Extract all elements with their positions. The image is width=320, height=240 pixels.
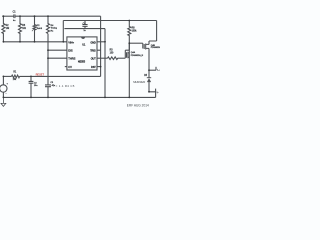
wire RST stub <box>97 66 101 68</box>
wire GND pin stub <box>97 41 105 43</box>
connector pin1 tick <box>155 67 157 70</box>
svg-text:GND: GND <box>91 42 96 45</box>
svg-text:R8: R8 <box>132 27 136 29</box>
svg-text:RST: RST <box>91 66 96 69</box>
svg-text:OUT: OUT <box>91 57 96 60</box>
U1 pin labels <box>68 41 96 69</box>
resistor R4 <box>47 16 50 33</box>
svg-text:FDS4935A: FDS4935A <box>151 46 160 49</box>
svg-text:100k: 100k <box>132 30 138 32</box>
wire V+ drop from C4 line <box>62 21 64 42</box>
labels <box>6 11 162 96</box>
wire battery top lead <box>2 76 4 84</box>
svg-text:T = 1.1 R4 C5: T = 1.1 R4 C5 <box>53 84 75 88</box>
svg-text:-: - <box>6 92 7 95</box>
wire gate line <box>129 42 143 44</box>
diode D5 triangle <box>147 78 151 82</box>
wire battery bottom lead <box>2 92 4 97</box>
svg-text:Rx: Rx <box>51 30 55 32</box>
svg-text:10n: 10n <box>34 85 38 87</box>
wire gate drop to Q4B <box>142 43 144 48</box>
svg-text:1u: 1u <box>83 30 86 32</box>
wire right gnd column <box>104 29 106 98</box>
trimmer C2 <box>33 16 36 42</box>
svg-text:R1: R1 <box>13 71 17 73</box>
wire top supply bus left of C1 <box>2 15 14 17</box>
U1 notch <box>82 37 85 39</box>
svg-text:U1: U1 <box>82 43 86 46</box>
wire Q4A drain column <box>128 43 130 97</box>
svg-text:L+: L+ <box>157 69 160 71</box>
wire RESET line right <box>20 75 101 77</box>
svg-text:ERF AUG 2014: ERF AUG 2014 <box>127 103 149 107</box>
transistor Q4A <box>127 52 130 58</box>
svg-text:DIS: DIS <box>68 49 73 53</box>
capacitor C1 <box>14 14 15 18</box>
wire R4 bottom column down to timing cap <box>47 34 49 85</box>
svg-text:R3: R3 <box>110 50 114 52</box>
connector pin2 tick <box>155 89 157 98</box>
svg-text:10k: 10k <box>22 28 26 30</box>
op-amp U1 555 box <box>67 37 97 70</box>
resistor R2 <box>2 16 5 42</box>
capacitor C4 <box>82 21 87 29</box>
wire THRS line <box>48 57 67 59</box>
wire gnd line3 <box>64 28 105 30</box>
wire RESET line left <box>3 75 11 77</box>
wire DIS line <box>48 49 67 51</box>
svg-text:+: + <box>6 82 8 85</box>
resistor R3g <box>108 57 118 60</box>
resistor R8 <box>128 21 131 44</box>
svg-text:NE555: NE555 <box>78 61 86 64</box>
wire right V+ rail <box>156 21 158 42</box>
svg-text:10k: 10k <box>6 28 10 30</box>
resistor R3 <box>19 16 22 42</box>
svg-text:TRIG: TRIG <box>90 50 96 53</box>
transistor Q4B <box>144 44 149 50</box>
trimmer C2 arrow <box>32 25 38 31</box>
capacitor C2b reset <box>29 76 34 97</box>
diode D5 cathode <box>147 77 151 79</box>
svg-text:MUR3420: MUR3420 <box>133 80 145 84</box>
svg-text:R2: R2 <box>6 25 10 27</box>
wire Q4B source up <box>149 41 157 44</box>
svg-text:Ref-B: Ref-B <box>37 28 43 30</box>
svg-text:C1: C1 <box>13 11 17 14</box>
svg-text:CV: CV <box>68 65 72 69</box>
svg-text:R3: R3 <box>22 25 26 27</box>
junction dots <box>3 15 150 98</box>
capacitor C5 timing <box>45 85 51 98</box>
svg-text:THRS: THRS <box>68 56 75 60</box>
svg-text:10k: 10k <box>13 79 17 81</box>
svg-text:Q4A: Q4A <box>131 51 136 54</box>
svg-text:R4: R4 <box>51 25 55 27</box>
svg-text:D5: D5 <box>144 75 148 77</box>
wire bottom gnd bus <box>3 96 155 98</box>
wire bus long drop to reset node <box>100 16 102 76</box>
wire TRIG stub <box>97 49 101 51</box>
battery V1 <box>0 85 7 92</box>
wire OUT lead <box>97 57 108 59</box>
resistor R1 <box>12 75 20 78</box>
wire Q4B drain down to diode <box>148 48 150 77</box>
wire Q4A gate column <box>124 50 126 58</box>
wire diode to pin2 <box>149 82 156 92</box>
ground <box>1 97 6 106</box>
wire V+ rail <box>3 41 67 43</box>
wire R8 gate jog <box>125 43 129 50</box>
svg-text:100: 100 <box>110 52 114 54</box>
wire R3g to Q4A gate column <box>118 57 126 59</box>
svg-text:Timing: Timing <box>51 28 58 30</box>
svg-text:FDS4935A_N: FDS4935A_N <box>131 54 144 57</box>
wire top supply bus right of C1 <box>15 15 101 17</box>
wire CV stub <box>65 66 67 68</box>
wire output plus line <box>149 69 156 71</box>
wire C4 top line <box>63 20 156 22</box>
svg-text:VIN+: VIN+ <box>68 41 74 45</box>
svg-text:L-: L- <box>157 92 159 94</box>
svg-text:RESET: RESET <box>36 73 45 77</box>
svg-text:C2: C2 <box>37 25 41 27</box>
svg-text:4u: 4u <box>13 20 16 22</box>
